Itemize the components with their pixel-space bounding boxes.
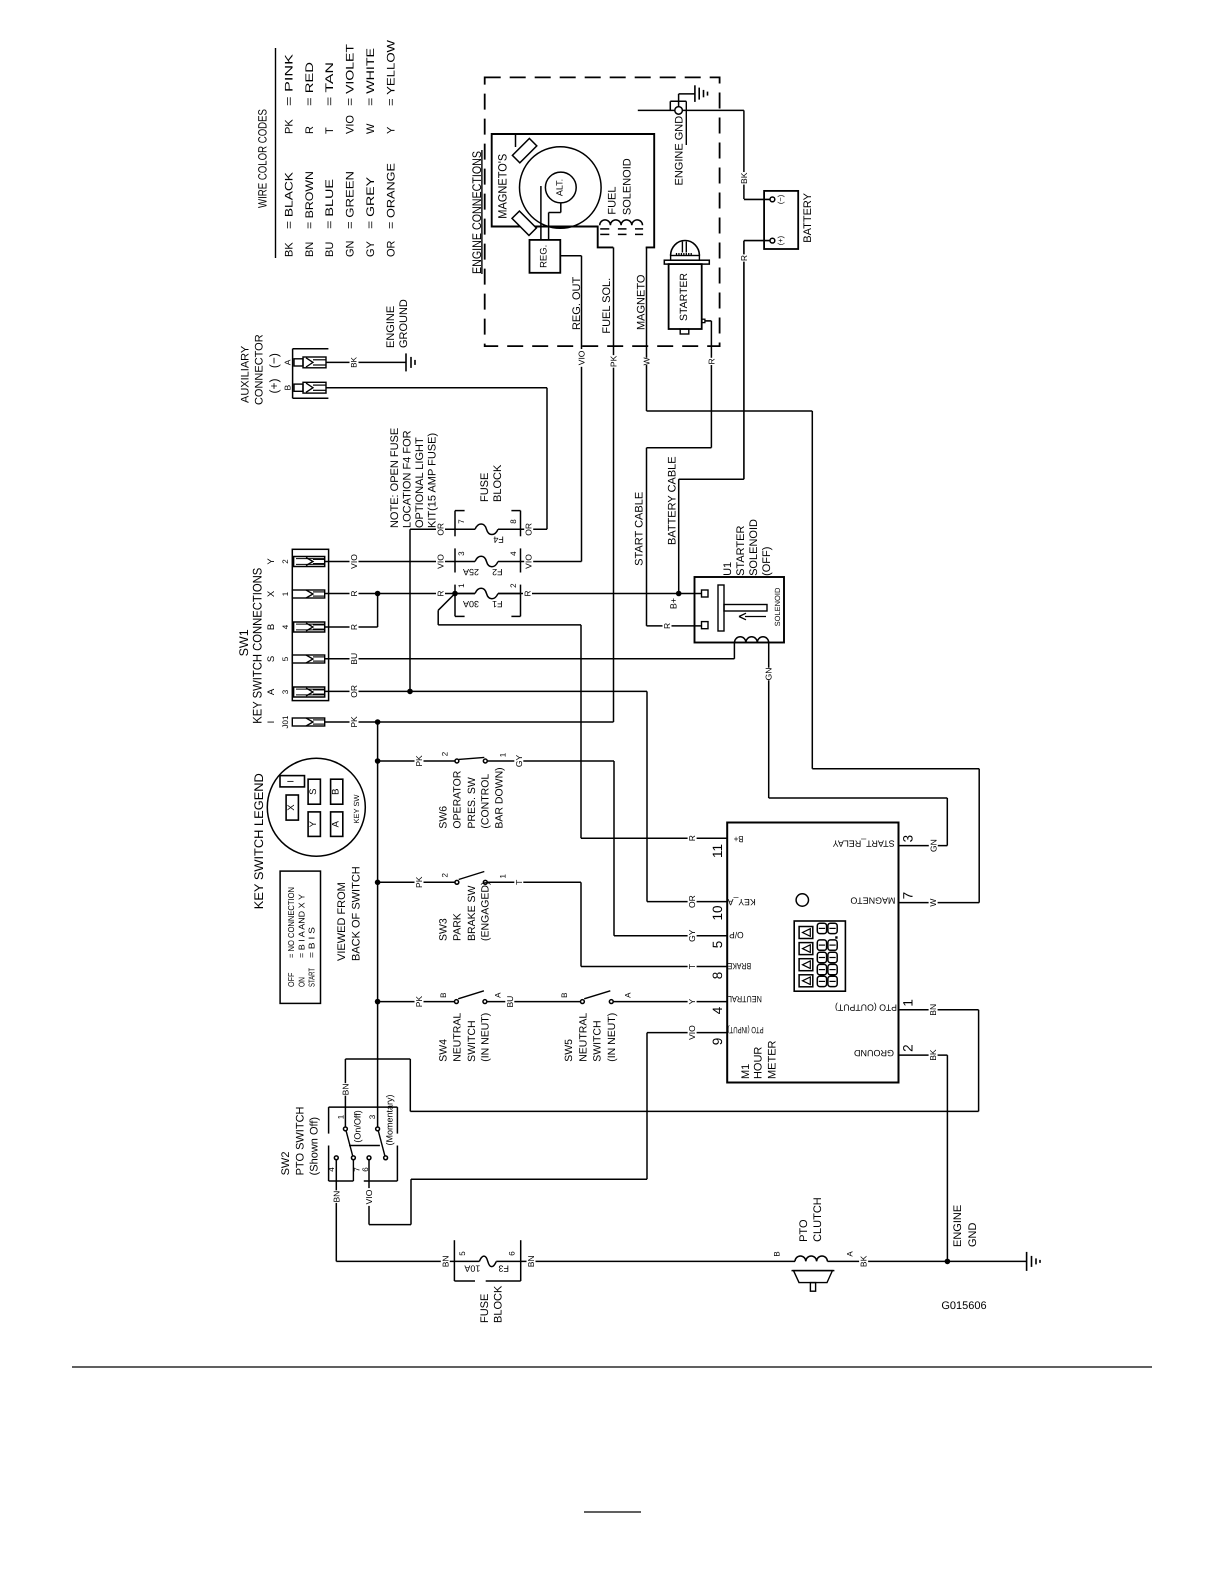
svg-text:2: 2: [441, 751, 450, 756]
svg-text:(IN NEUT): (IN NEUT): [606, 1013, 618, 1062]
svg-text:BN: BN: [304, 242, 316, 257]
svg-text:(ENGAGED): (ENGAGED): [480, 881, 492, 941]
svg-text:3: 3: [901, 835, 916, 843]
svg-text:VIO: VIO: [349, 554, 359, 569]
svg-text:F1: F1: [492, 599, 503, 609]
svg-text:5: 5: [281, 656, 290, 661]
svg-text:KEY SWITCH CONNECTIONS: KEY SWITCH CONNECTIONS: [251, 568, 265, 724]
svg-text:8: 8: [509, 519, 518, 524]
svg-text:BATTERY: BATTERY: [802, 192, 814, 242]
svg-text:VIEWED FROM: VIEWED FROM: [336, 882, 348, 961]
svg-text:2: 2: [281, 559, 290, 564]
svg-text:4: 4: [281, 624, 290, 629]
svg-text:GN: GN: [764, 668, 774, 681]
svg-text:1: 1: [499, 874, 508, 879]
svg-text:NEUTRAL: NEUTRAL: [728, 994, 762, 1004]
svg-text:BU: BU: [505, 996, 515, 1008]
svg-text:A: A: [266, 688, 277, 695]
svg-text:PARK: PARK: [451, 913, 463, 941]
svg-text:(−): (−): [776, 194, 785, 204]
svg-text:R: R: [662, 623, 672, 629]
svg-text:START CABLE: START CABLE: [634, 492, 646, 566]
svg-text:R: R: [523, 590, 533, 596]
svg-text:AUXILIARY: AUXILIARY: [239, 345, 251, 403]
svg-text:2: 2: [441, 873, 450, 878]
svg-text:FUSE: FUSE: [479, 473, 491, 502]
svg-text:PK: PK: [414, 755, 424, 767]
svg-text:Y: Y: [385, 126, 397, 134]
svg-text:PTO (OUTPUT): PTO (OUTPUT): [835, 1003, 897, 1013]
svg-text:= BLUE: = BLUE: [324, 179, 336, 229]
svg-text:BN: BN: [928, 1004, 938, 1016]
svg-text:= BROWN: = BROWN: [304, 171, 316, 229]
svg-text:MAGNETO: MAGNETO: [850, 895, 895, 905]
svg-text:PK: PK: [609, 355, 619, 367]
svg-text:R: R: [739, 255, 749, 261]
svg-text:R: R: [706, 358, 716, 364]
svg-text:GROUND: GROUND: [398, 299, 410, 348]
svg-text:(+): (+): [267, 378, 281, 393]
svg-text:3: 3: [368, 1114, 377, 1119]
svg-text:BRAKE: BRAKE: [728, 961, 752, 971]
svg-text:X: X: [266, 590, 277, 597]
svg-text:B: B: [266, 624, 277, 630]
svg-text:FUEL: FUEL: [606, 186, 618, 214]
svg-text:PK: PK: [414, 996, 424, 1008]
svg-text:STARTER: STARTER: [678, 273, 690, 321]
svg-text:SOLENOID: SOLENOID: [621, 158, 633, 215]
svg-text:VIO: VIO: [577, 350, 587, 365]
svg-text:PK: PK: [283, 119, 295, 134]
svg-text:5: 5: [458, 1251, 467, 1256]
svg-text:BK: BK: [859, 1255, 869, 1267]
svg-text:= GREY: = GREY: [365, 176, 377, 229]
svg-text:OR: OR: [687, 895, 697, 908]
svg-text:NOTE: OPEN FUSE: NOTE: OPEN FUSE: [389, 428, 401, 528]
svg-text:BLOCK: BLOCK: [492, 464, 504, 502]
svg-text:WIRE COLOR CODES: WIRE COLOR CODES: [255, 109, 269, 208]
svg-text:VIO: VIO: [687, 1025, 697, 1040]
svg-text:BK: BK: [283, 242, 295, 257]
svg-text:FUSE: FUSE: [479, 1294, 491, 1323]
svg-text:CLUTCH: CLUTCH: [812, 1197, 824, 1242]
svg-text:KEY_A: KEY_A: [728, 897, 756, 907]
svg-text:FUEL SOL.: FUEL SOL.: [601, 278, 613, 334]
svg-text:A: A: [331, 820, 342, 827]
svg-text:W: W: [928, 899, 938, 907]
svg-text:S: S: [266, 656, 277, 662]
svg-text:B: B: [283, 385, 293, 391]
svg-text:U1: U1: [722, 562, 734, 576]
svg-text:10: 10: [710, 905, 725, 920]
svg-text:A: A: [845, 1251, 854, 1257]
svg-text:= WHITE: = WHITE: [365, 48, 377, 106]
svg-text:B+: B+: [669, 598, 679, 609]
svg-text:B: B: [560, 993, 569, 998]
svg-text:NEUTRAL: NEUTRAL: [578, 1013, 590, 1062]
svg-text:BACK OF SWITCH: BACK OF SWITCH: [350, 866, 362, 961]
svg-text:= PINK: = PINK: [283, 53, 295, 106]
svg-text:G015606: G015606: [941, 1300, 986, 1312]
svg-text:BRAKE SW: BRAKE SW: [466, 885, 478, 941]
svg-text:GY: GY: [365, 240, 377, 257]
svg-text:W: W: [642, 357, 652, 365]
svg-text:PTO: PTO: [798, 1219, 810, 1242]
svg-text:VIO: VIO: [524, 554, 534, 569]
svg-text:I: I: [286, 780, 296, 783]
svg-text:R: R: [304, 126, 316, 134]
svg-text:7: 7: [457, 519, 466, 524]
svg-text:= TAN: = TAN: [324, 62, 336, 106]
svg-text:SW4: SW4: [438, 1039, 450, 1062]
svg-text:A: A: [494, 992, 503, 998]
svg-text:ALT.: ALT.: [555, 179, 565, 196]
svg-text:1: 1: [281, 591, 290, 596]
svg-text:KIT(15 AMP FUSE): KIT(15 AMP FUSE): [426, 433, 438, 528]
svg-text:A: A: [283, 359, 293, 365]
svg-text:BU: BU: [349, 653, 359, 665]
svg-text:3: 3: [457, 551, 466, 556]
svg-text:PTO SWITCH: PTO SWITCH: [294, 1106, 306, 1175]
svg-text:= RED: = RED: [304, 62, 316, 106]
svg-text:Y: Y: [687, 998, 697, 1004]
svg-text:= ORANGE: = ORANGE: [385, 163, 397, 229]
svg-text:REG. OUT: REG. OUT: [571, 277, 583, 330]
svg-text:BN: BN: [526, 1255, 536, 1267]
svg-text:B: B: [331, 789, 342, 795]
svg-text:ENGINE GND: ENGINE GND: [673, 116, 685, 186]
svg-text:W: W: [365, 123, 377, 134]
svg-text:= NO CONNECTION: = NO CONNECTION: [286, 887, 296, 958]
svg-text:CONNECTOR: CONNECTOR: [253, 334, 265, 405]
svg-text:BLOCK: BLOCK: [492, 1285, 504, 1323]
svg-text:VIO: VIO: [345, 115, 357, 134]
svg-text:NEUTRAL: NEUTRAL: [451, 1013, 463, 1062]
svg-text:11: 11: [710, 844, 725, 858]
svg-text:BK: BK: [739, 172, 749, 184]
svg-text:= YELLOW: = YELLOW: [385, 39, 397, 106]
svg-text:(On/Off): (On/Off): [352, 1110, 362, 1142]
svg-text:= GREEN: = GREEN: [345, 171, 357, 229]
svg-text:PK: PK: [414, 876, 424, 888]
svg-text:VIO: VIO: [364, 1189, 374, 1204]
svg-text:OR: OR: [524, 523, 534, 536]
svg-text:PRES. SW: PRES. SW: [466, 777, 478, 828]
svg-text:= VIOLET: = VIOLET: [345, 44, 357, 106]
svg-text:R: R: [349, 624, 359, 630]
svg-text:8: 8: [710, 972, 725, 980]
svg-text:F4: F4: [493, 535, 504, 545]
svg-text:B: B: [439, 993, 448, 998]
svg-text:Y: Y: [308, 820, 319, 827]
svg-text:(−): (−): [267, 353, 281, 368]
svg-text:BN: BN: [340, 1083, 350, 1095]
svg-text:START: START: [306, 968, 316, 987]
svg-text:(Shown Off): (Shown Off): [309, 1117, 321, 1176]
svg-text:MAGNETO: MAGNETO: [635, 274, 647, 330]
svg-text:J01: J01: [281, 715, 290, 728]
svg-text:(OFF): (OFF): [761, 547, 773, 576]
svg-text:R: R: [687, 835, 697, 841]
svg-text:OPERATOR: OPERATOR: [451, 770, 463, 828]
svg-text:ENGINE: ENGINE: [952, 1205, 964, 1247]
svg-text:BU: BU: [324, 242, 336, 257]
svg-text:7: 7: [901, 892, 916, 900]
svg-text:HOUR: HOUR: [752, 1047, 764, 1079]
svg-text:1: 1: [901, 999, 916, 1007]
svg-text:6: 6: [361, 1167, 370, 1172]
svg-text:REG.: REG.: [539, 245, 550, 268]
svg-text:OFF: OFF: [286, 973, 296, 988]
svg-text:T: T: [324, 127, 336, 134]
svg-text:6: 6: [507, 1251, 516, 1256]
svg-text:ENGINE: ENGINE: [385, 306, 397, 348]
svg-text:2: 2: [509, 583, 518, 588]
svg-text:SWITCH: SWITCH: [591, 1020, 603, 1061]
svg-text:(Momentary): (Momentary): [385, 1094, 395, 1145]
svg-text:START_RELAY: START_RELAY: [833, 838, 895, 848]
svg-text:S: S: [308, 789, 319, 795]
svg-text:1: 1: [457, 583, 466, 588]
svg-text:R: R: [349, 590, 359, 596]
svg-text:GROUND: GROUND: [854, 1048, 894, 1058]
svg-text:R: R: [436, 590, 446, 596]
svg-text:BN: BN: [331, 1191, 341, 1203]
svg-text:B+: B+: [734, 834, 744, 844]
svg-text:3: 3: [281, 689, 290, 694]
svg-text:X: X: [286, 804, 297, 811]
svg-text:PK: PK: [349, 716, 359, 728]
svg-text:2: 2: [901, 1044, 916, 1052]
svg-text:SW5: SW5: [563, 1039, 575, 1062]
svg-text:BK: BK: [928, 1049, 938, 1061]
svg-text:KEY SWITCH LEGEND: KEY SWITCH LEGEND: [252, 773, 266, 909]
svg-text:LOCATION F4 FOR: LOCATION F4 FOR: [401, 430, 413, 528]
svg-text:10A: 10A: [464, 1264, 480, 1274]
svg-text:(CONTROL: (CONTROL: [480, 774, 492, 829]
svg-text:4: 4: [509, 551, 518, 556]
svg-text:OPTIONAL LIGHT: OPTIONAL LIGHT: [414, 437, 426, 528]
svg-text:SOLENOID: SOLENOID: [773, 587, 782, 626]
svg-text:1: 1: [499, 752, 508, 757]
svg-text:MAGNETO'S: MAGNETO'S: [495, 154, 509, 219]
svg-text:SOLENOID: SOLENOID: [748, 519, 760, 576]
svg-text:BAR DOWN): BAR DOWN): [494, 767, 506, 828]
svg-text:SW3: SW3: [438, 918, 450, 941]
svg-text:VIO: VIO: [436, 554, 446, 569]
svg-text:25A: 25A: [463, 567, 479, 577]
svg-text:BN: BN: [440, 1255, 450, 1267]
svg-text:T: T: [687, 964, 697, 969]
svg-text:= B I A AND X Y: = B I A AND X Y: [296, 894, 306, 958]
svg-text:4: 4: [710, 1006, 725, 1014]
svg-text:M1: M1: [740, 1064, 752, 1079]
svg-text:METER: METER: [766, 1040, 778, 1079]
svg-text:PTO (INPUT): PTO (INPUT): [728, 1025, 764, 1035]
svg-text:OR: OR: [349, 685, 359, 698]
svg-text:9: 9: [710, 1038, 725, 1046]
svg-text:4: 4: [327, 1167, 336, 1172]
svg-text:F3: F3: [498, 1264, 509, 1274]
svg-text:A: A: [624, 992, 633, 998]
svg-text:STARTER: STARTER: [735, 526, 747, 576]
svg-text:GND: GND: [967, 1223, 979, 1248]
svg-text:GN: GN: [928, 839, 938, 852]
svg-text:GN: GN: [345, 240, 357, 257]
svg-text:Y: Y: [266, 558, 277, 565]
svg-text:30A: 30A: [463, 599, 479, 609]
svg-text:(IN NEUT): (IN NEUT): [480, 1013, 492, 1062]
svg-text:KEY SW: KEY SW: [352, 794, 361, 824]
svg-text:BATTERY CABLE: BATTERY CABLE: [666, 456, 678, 545]
svg-text:O/P: O/P: [729, 930, 744, 940]
svg-text:SWITCH: SWITCH: [466, 1020, 478, 1061]
svg-text:OR: OR: [436, 523, 446, 536]
svg-text:SW6: SW6: [438, 806, 450, 829]
svg-text:ON: ON: [296, 977, 306, 987]
svg-text:BK: BK: [350, 356, 359, 367]
svg-text:GY: GY: [514, 755, 524, 768]
svg-text:(+): (+): [776, 235, 785, 245]
svg-text:B: B: [772, 1251, 781, 1256]
svg-text:F2: F2: [492, 567, 503, 577]
svg-text:SW1: SW1: [237, 629, 251, 656]
svg-text:SW2: SW2: [280, 1152, 292, 1176]
svg-text:1: 1: [337, 1114, 346, 1119]
svg-text:OR: OR: [385, 240, 397, 257]
svg-text:I: I: [266, 721, 277, 724]
svg-text:= BLACK: = BLACK: [283, 171, 295, 229]
svg-text:T: T: [514, 880, 524, 885]
svg-text:GY: GY: [687, 929, 697, 942]
svg-text:= B I S: = B I S: [306, 927, 316, 958]
svg-text:5: 5: [710, 941, 725, 949]
